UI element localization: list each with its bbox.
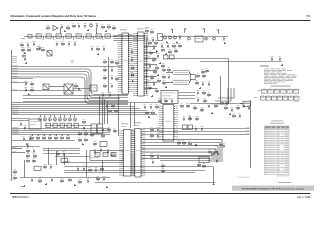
svg-text:6881076C20-C: 6881076C20-C: [12, 196, 29, 199]
svg-text:Schematics: Component Location: Schematics: Component Location Diagrams …: [10, 14, 96, 18]
svg-text:HPD4002B(/HPD6002B/)4C/ VHF RF: HPD4002B(/HPD6002B/)4C/ VHF RF Board Sch…: [242, 188, 305, 191]
svg-text:NOTES:: NOTES:: [261, 66, 270, 68]
svg-text:July 1, 2005: July 1, 2005: [297, 196, 311, 199]
svg-text:7-5: 7-5: [306, 14, 310, 18]
